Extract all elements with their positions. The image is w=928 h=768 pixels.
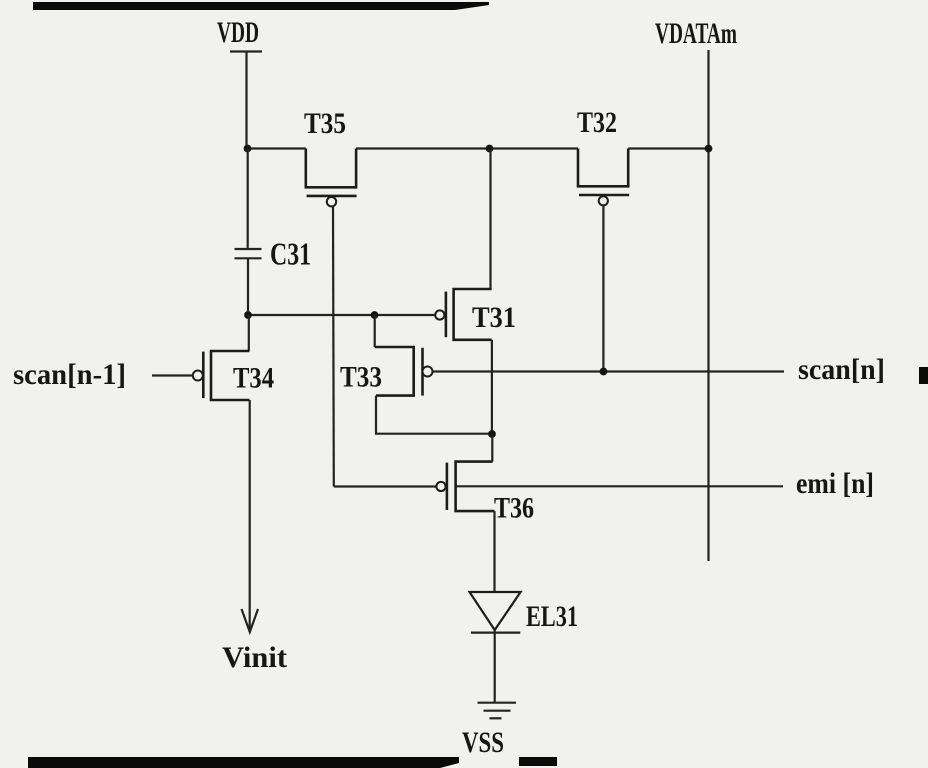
node scan[n]-T32 gate junction [600, 368, 608, 376]
svg-text:scan[n]: scan[n] [798, 353, 885, 386]
Vinit arrowhead [242, 609, 259, 632]
wire VDD vertical lead [245, 52, 247, 150]
wire C31 lower lead [247, 258, 249, 315]
ground symbol bar3 [490, 717, 502, 719]
wire scan[n-1] lead [152, 374, 193, 376]
capacitor C31 top plate [235, 248, 262, 250]
svg-text:T35: T35 [304, 107, 346, 140]
diode EL31 cathode bar [471, 631, 520, 633]
wire top rail T32 to VDATAm [628, 147, 708, 149]
wire top rail T35 to T32 [356, 147, 578, 149]
wire node315 to T34 drain [248, 315, 250, 351]
transistor T34 gate bar [202, 352, 205, 399]
svg-text:T34: T34 [233, 362, 274, 395]
svg-text:VDD: VDD [217, 16, 259, 49]
transistor T35 gate bar [307, 195, 357, 198]
scan artifact right-edge tick [919, 367, 928, 384]
wire T36 source to EL31 [493, 511, 495, 592]
scan artifact bottom-mid bar [519, 757, 557, 766]
transistor T36 gate bar [446, 463, 449, 510]
svg-text:T31: T31 [472, 301, 516, 334]
wire T32 gate vertical to scan[n] [602, 205, 604, 371]
svg-text:C31: C31 [270, 236, 311, 272]
transistor T33 channel staple [375, 347, 414, 396]
transistor T31 gate bubble [435, 310, 444, 319]
wire T31 source vertical to node [491, 340, 493, 434]
transistor T34 channel staple [211, 351, 250, 400]
svg-text:T36: T36 [494, 492, 534, 525]
node rail-VDD junction [244, 145, 252, 153]
node rail-T31 junction [486, 145, 494, 153]
transistor T32 gate bar [579, 194, 629, 197]
svg-text:VDATAm: VDATAm [655, 17, 737, 50]
wire emi net to T36 gate lead [334, 485, 437, 487]
node rail-VDATAm junction [705, 145, 713, 153]
node T33 branch junction [371, 311, 379, 319]
svg-text:Vinit: Vinit [222, 641, 287, 674]
wire EL31 to ground [494, 630, 496, 703]
scan artifact bottom-left bar [28, 757, 440, 768]
transistor T33 gate bar [421, 348, 424, 396]
node T33-T31-T36 junction [488, 430, 496, 438]
transistor T31 channel staple [454, 289, 492, 340]
wire T33 branch vertical [374, 315, 376, 347]
wire T33 source jog down [376, 396, 492, 434]
capacitor C31 bottom plate [235, 257, 262, 259]
wire T34 source down to Vinit arrow [249, 400, 251, 630]
ground symbol bar2 [484, 710, 511, 712]
transistor T31 gate bar [445, 292, 448, 338]
wire emi[n] line right [456, 485, 783, 487]
VDD terminal bar [230, 50, 262, 52]
wire top rail VDD node to T35 [248, 147, 306, 149]
wire C31 upper lead [247, 149, 249, 250]
svg-text:T32: T32 [577, 106, 617, 139]
svg-text:scan[n-1]: scan[n-1] [13, 358, 126, 391]
svg-text:VSS: VSS [462, 726, 504, 759]
transistor T35 gate bubble [327, 197, 336, 206]
wire T35 gate vertical to emi [332, 206, 335, 486]
scan artifact top bar [33, 2, 455, 10]
svg-text:emi [n]: emi [n] [796, 467, 874, 500]
transistor T33 gate bubble [423, 367, 433, 377]
svg-text:T33: T33 [340, 361, 382, 394]
wire node to T36 drain vertical [491, 434, 493, 462]
transistor T32 channel staple [578, 149, 628, 187]
wire gate net horizontal y315 [248, 314, 435, 316]
ground symbol bar1 [478, 702, 517, 704]
wire rail to T31 drain vertical [489, 149, 491, 290]
node C31-T34 junction [244, 311, 252, 319]
transistor T36 gate bubble [436, 482, 445, 491]
wire VDATAm vertical data line [707, 50, 709, 561]
svg-text:EL31: EL31 [526, 600, 578, 633]
transistor T32 gate bubble [599, 196, 608, 205]
diode EL31 triangle [470, 592, 521, 630]
transistor T35 channel staple [306, 149, 356, 188]
transistor T36 channel staple [456, 462, 495, 512]
wire scan[n] line [433, 370, 785, 372]
transistor T34 gate bubble [193, 371, 203, 381]
